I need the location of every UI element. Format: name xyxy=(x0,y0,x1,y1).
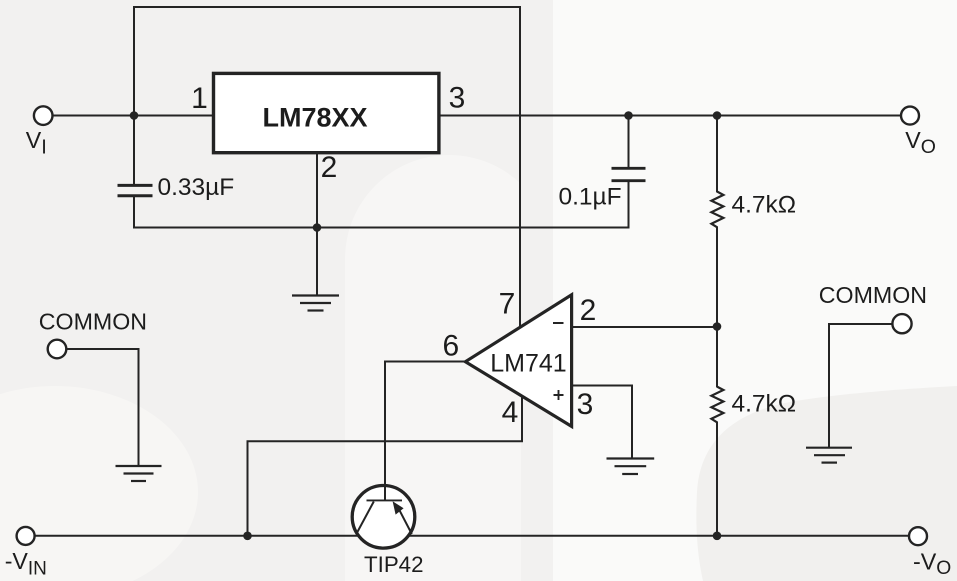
ground op-amp pin3 xyxy=(607,459,655,475)
transistor emitter arrow xyxy=(393,501,404,514)
wire top loop VI to pin 7 xyxy=(134,7,520,325)
capacitor C2 0.1uF plates xyxy=(612,168,646,180)
regulator U1 LM78XX box xyxy=(214,73,439,152)
svg-text:0.33µF: 0.33µF xyxy=(158,174,235,201)
transistor emitter leg xyxy=(400,510,412,534)
wire VO junction to resistor R1 xyxy=(716,116,718,192)
wire capacitor C2 to common loop xyxy=(628,182,630,228)
wire pin 2 to ground xyxy=(316,154,318,296)
op-amp U2 LM741 triangle xyxy=(465,295,571,427)
svg-text:LM741: LM741 xyxy=(490,350,566,378)
wire capacitor C1 to common rail xyxy=(133,198,135,228)
transistor base bar xyxy=(367,499,403,501)
resistor R1 4.7k zigzag xyxy=(711,192,723,228)
node divider junction xyxy=(713,322,722,331)
wire op-amp pin 2 to divider node xyxy=(572,326,718,328)
wire divider node to resistor R2 xyxy=(716,327,718,387)
node pin4 rail junction xyxy=(243,532,252,541)
terminal right COMMON xyxy=(892,314,911,333)
node VI junction xyxy=(130,111,139,120)
wire common loop rail xyxy=(134,227,629,229)
svg-text:3: 3 xyxy=(577,388,594,421)
op-amp minus sign xyxy=(553,322,564,324)
ground left COMMON xyxy=(116,466,162,481)
svg-text:4.7kΩ: 4.7kΩ xyxy=(732,192,797,219)
wire left COMMON to ground xyxy=(66,349,139,466)
wire op-amp pin 6 to transistor base xyxy=(385,362,466,501)
svg-text:0.1µF: 0.1µF xyxy=(559,184,622,211)
svg-text:COMMON: COMMON xyxy=(39,309,147,335)
wire resistor R1 to node junction xyxy=(716,227,718,326)
background bottom-right blob xyxy=(696,386,957,581)
svg-text:COMMON: COMMON xyxy=(819,282,927,308)
svg-text:TIP42: TIP42 xyxy=(364,552,424,577)
ground pin2 xyxy=(292,296,339,311)
svg-text:1: 1 xyxy=(191,82,208,115)
node C2 junction xyxy=(624,111,633,120)
svg-text:2: 2 xyxy=(321,151,338,184)
svg-text:6: 6 xyxy=(442,330,459,363)
wire pin 3 to VO terminal xyxy=(440,115,901,117)
svg-text:4.7kΩ: 4.7kΩ xyxy=(732,391,797,418)
wire junction to capacitor C2 xyxy=(628,116,630,168)
terminal left COMMON xyxy=(48,340,67,359)
transistor collector leg xyxy=(356,502,374,535)
wire bottom rail xyxy=(35,535,909,537)
node R1 top junction xyxy=(713,111,722,120)
wire resistor R2 to bottom rail xyxy=(716,423,718,536)
wire right COMMON to ground xyxy=(829,324,893,448)
node R2 rail junction xyxy=(713,532,722,541)
wire op-amp pin 4 to bottom rail xyxy=(248,397,523,536)
capacitor C1 0.33uF plates xyxy=(118,185,153,195)
background left gray block xyxy=(0,0,553,581)
svg-text:3: 3 xyxy=(449,82,466,115)
ground right COMMON xyxy=(806,448,852,463)
wire VI terminal to pin 1 xyxy=(53,115,213,117)
resistor R2 4.7k zigzag xyxy=(711,387,723,423)
background bottom-left blob xyxy=(0,386,198,581)
terminal VI xyxy=(34,106,53,125)
svg-text:7: 7 xyxy=(499,288,516,321)
terminal -VIN xyxy=(17,527,35,545)
op-amp plus sign xyxy=(554,390,564,400)
svg-text:4: 4 xyxy=(502,396,519,429)
transistor Q1 TIP42 circle xyxy=(352,486,415,549)
node common loop junction xyxy=(313,223,322,232)
wire op-amp pin 3 to ground xyxy=(572,386,633,459)
svg-text:LM78XX: LM78XX xyxy=(262,103,367,133)
terminal -VO xyxy=(909,527,927,545)
svg-text:2: 2 xyxy=(580,294,597,327)
wire junction to capacitor C1 xyxy=(133,116,135,185)
background center pill watermark xyxy=(345,155,553,581)
terminal VO xyxy=(901,107,919,125)
transistor base wire inside xyxy=(384,484,386,501)
